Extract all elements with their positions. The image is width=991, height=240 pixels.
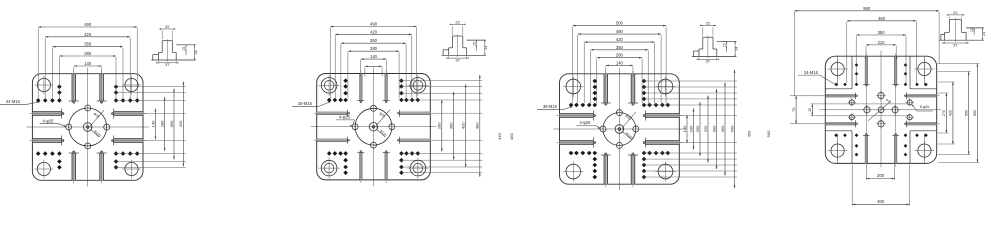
svg-text:140: 140 xyxy=(370,54,378,59)
svg-text:420: 420 xyxy=(178,120,183,127)
svg-text:490: 490 xyxy=(616,29,624,34)
svg-text:37: 37 xyxy=(455,58,460,63)
svg-text:420: 420 xyxy=(84,32,92,37)
svg-text:360: 360 xyxy=(449,122,454,129)
svg-text:24-M16: 24-M16 xyxy=(804,70,819,75)
svg-text:24: 24 xyxy=(484,46,488,50)
svg-text:560: 560 xyxy=(766,130,771,137)
svg-text:24: 24 xyxy=(982,32,986,36)
svg-text:140: 140 xyxy=(84,61,92,66)
svg-text:4-φ25: 4-φ25 xyxy=(580,120,592,125)
svg-text:200: 200 xyxy=(877,173,885,178)
svg-text:490: 490 xyxy=(370,22,378,27)
svg-text:560: 560 xyxy=(965,110,969,116)
svg-text:460: 460 xyxy=(878,16,886,21)
svg-text:480: 480 xyxy=(509,132,514,139)
svg-text:140: 140 xyxy=(682,125,687,132)
svg-text:490: 490 xyxy=(84,22,92,27)
svg-text:37: 37 xyxy=(165,62,170,67)
svg-text:360: 360 xyxy=(169,120,174,127)
svg-text:390: 390 xyxy=(711,125,716,132)
svg-text:24: 24 xyxy=(735,47,739,51)
svg-text:210: 210 xyxy=(878,40,886,45)
svg-text:24-M16: 24-M16 xyxy=(6,99,21,104)
svg-text:660: 660 xyxy=(973,110,977,116)
svg-text:280: 280 xyxy=(84,51,92,56)
svg-text:420: 420 xyxy=(461,122,466,129)
svg-text:15: 15 xyxy=(472,42,476,46)
svg-text:350: 350 xyxy=(878,30,886,35)
svg-text:22: 22 xyxy=(165,24,170,29)
svg-text:280: 280 xyxy=(370,46,378,51)
svg-text:420: 420 xyxy=(616,37,624,42)
svg-text:400: 400 xyxy=(877,199,885,204)
svg-text:280: 280 xyxy=(437,122,442,129)
svg-text:200: 200 xyxy=(688,125,693,132)
svg-text:500: 500 xyxy=(616,21,624,26)
svg-text:36-M16: 36-M16 xyxy=(543,104,558,109)
svg-text:4-φ25: 4-φ25 xyxy=(339,115,351,120)
svg-text:8-φ25: 8-φ25 xyxy=(920,105,929,109)
svg-text:350: 350 xyxy=(370,38,378,43)
svg-text:15: 15 xyxy=(723,43,727,47)
svg-text:22: 22 xyxy=(706,21,711,26)
svg-text:140: 140 xyxy=(150,120,155,127)
svg-text:960: 960 xyxy=(863,6,871,11)
svg-text:22: 22 xyxy=(455,20,460,25)
svg-text:37: 37 xyxy=(706,59,711,64)
svg-text:24: 24 xyxy=(194,50,198,54)
svg-text:420: 420 xyxy=(949,110,953,116)
svg-text:270: 270 xyxy=(942,110,946,116)
svg-text:440: 440 xyxy=(497,132,502,139)
svg-text:22: 22 xyxy=(953,10,958,15)
svg-text:320: 320 xyxy=(703,125,708,132)
svg-text:260: 260 xyxy=(695,125,700,132)
svg-text:15: 15 xyxy=(970,28,974,32)
svg-text:450: 450 xyxy=(747,130,752,137)
svg-text:37: 37 xyxy=(953,42,958,47)
svg-text:490: 490 xyxy=(475,122,480,129)
svg-text:280: 280 xyxy=(616,53,624,58)
svg-text:28-M16: 28-M16 xyxy=(298,101,313,106)
svg-text:15: 15 xyxy=(182,47,186,51)
svg-text:4-φ25: 4-φ25 xyxy=(43,118,55,123)
svg-text:350: 350 xyxy=(84,42,92,47)
svg-text:420: 420 xyxy=(370,29,378,34)
svg-text:140: 140 xyxy=(616,60,624,65)
svg-text:500: 500 xyxy=(729,125,734,132)
svg-text:70: 70 xyxy=(792,108,796,112)
svg-text:450: 450 xyxy=(720,125,725,132)
svg-text:280: 280 xyxy=(160,120,165,127)
svg-text:350: 350 xyxy=(616,45,624,50)
svg-text:20: 20 xyxy=(808,108,812,112)
